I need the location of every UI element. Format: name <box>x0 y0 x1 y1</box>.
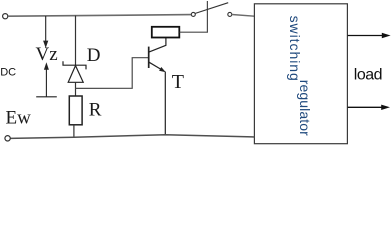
svg-text:Vz: Vz <box>36 44 58 65</box>
switching regulator box <box>254 4 347 144</box>
wire switch to regulator <box>232 15 254 17</box>
svg-text:T: T <box>172 71 184 93</box>
relay coil <box>152 27 180 38</box>
output arrow top <box>348 33 391 38</box>
svg-text:R: R <box>89 99 102 120</box>
zener diode D : cathode lead <box>75 16 77 66</box>
svg-text:switching: switching <box>287 16 303 82</box>
input terminal DC+ <box>3 14 8 19</box>
svg-text:load: load <box>354 66 382 83</box>
switch pivot contact <box>191 12 195 16</box>
resistor R <box>69 96 82 125</box>
zener diode D : anode lead <box>75 82 77 96</box>
zener diode D : cathode bar <box>63 61 86 69</box>
zener diode D : triangle <box>68 66 83 83</box>
svg-text:Ew: Ew <box>6 108 32 129</box>
switch blade <box>195 3 228 14</box>
Vz arrow down <box>43 16 48 48</box>
transistor T <box>149 38 166 135</box>
svg-text:DC: DC <box>0 67 16 79</box>
Vz arrow up with reference bar <box>36 62 57 97</box>
svg-text:D: D <box>87 45 101 66</box>
switch fixed contact <box>228 12 232 16</box>
output arrow bottom <box>348 105 390 110</box>
svg-text:regulator: regulator <box>297 80 313 136</box>
wire resistor bottom lead <box>73 125 75 138</box>
wire top rail <box>8 15 191 17</box>
output terminal Ew <box>5 136 10 141</box>
wire base junction to transistor base <box>76 58 149 89</box>
wire bottom rail <box>10 135 254 139</box>
wire relay to switch linkage <box>180 1 208 32</box>
